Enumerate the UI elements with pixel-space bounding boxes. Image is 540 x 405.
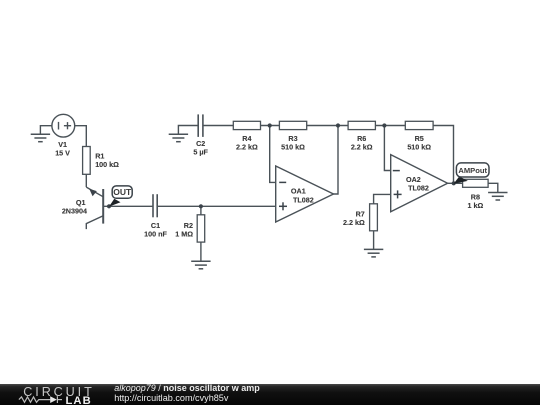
svg-text:1 kΩ: 1 kΩ: [468, 201, 484, 210]
svg-text:100 nF: 100 nF: [144, 230, 167, 239]
svg-text:5 µF: 5 µF: [193, 148, 208, 157]
svg-text:2.2 kΩ: 2.2 kΩ: [351, 142, 373, 151]
svg-text:2.2 kΩ: 2.2 kΩ: [343, 218, 365, 227]
svg-text:510 kΩ: 510 kΩ: [407, 142, 431, 151]
svg-text:100 kΩ: 100 kΩ: [95, 160, 119, 169]
svg-text:OA2: OA2: [406, 175, 421, 184]
svg-text:AMPout: AMPout: [458, 166, 487, 175]
svg-text:OUT: OUT: [113, 187, 132, 197]
svg-text:OA1: OA1: [291, 186, 306, 195]
svg-text:http://circuitlab.com/cvyh85v: http://circuitlab.com/cvyh85v: [114, 393, 229, 403]
svg-text:1 MΩ: 1 MΩ: [175, 230, 193, 239]
svg-text:2N3904: 2N3904: [62, 206, 87, 215]
svg-text:2.2 kΩ: 2.2 kΩ: [236, 142, 258, 151]
svg-text:15 V: 15 V: [55, 148, 70, 157]
svg-text:TL082: TL082: [408, 184, 429, 193]
svg-text:510 kΩ: 510 kΩ: [281, 142, 305, 151]
svg-text:LAB: LAB: [66, 395, 92, 405]
svg-text:TL082: TL082: [293, 195, 314, 204]
svg-text:alkopop79 / noise oscillator w: alkopop79 / noise oscillator w amp: [114, 383, 260, 393]
